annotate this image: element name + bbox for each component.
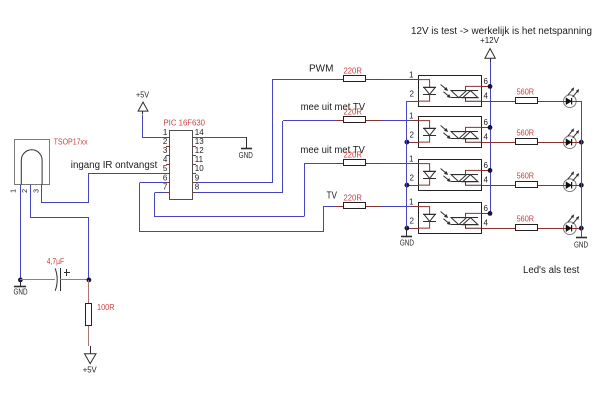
wire +5V to PIC pin1 bbox=[143, 115, 167, 138]
LED D4 emission arrows bbox=[568, 215, 579, 225]
svg-text:PIC 16F630: PIC 16F630 bbox=[164, 118, 206, 127]
optocoupler OK2 body bbox=[419, 117, 482, 148]
wire capacitor to node B bbox=[60, 279, 89, 281]
OK3 pin 4 lead bbox=[482, 185, 497, 187]
wire mee1 net to R2 bbox=[283, 120, 336, 122]
svg-text:3: 3 bbox=[34, 189, 41, 193]
U1 pin 3 lead bbox=[166, 155, 170, 157]
wire U2 pin2 down-right-down to Vs node bbox=[31, 185, 89, 280]
wire left rail (opto pin2 bus) bbox=[406, 101, 408, 228]
svg-text:6: 6 bbox=[484, 161, 489, 170]
lead R5 to +5V arrow bbox=[88, 326, 90, 346]
optocoupler OK1 body bbox=[419, 76, 482, 107]
wire OK2 pin4 to R7 bbox=[497, 142, 515, 144]
label 560R (R8) bbox=[517, 171, 535, 180]
label 220R (R4) bbox=[344, 194, 363, 203]
junction left rail at OK4 pin2 bbox=[405, 226, 410, 231]
U1 pin 1 number bbox=[163, 128, 168, 137]
label TV bbox=[327, 190, 338, 201]
U1 pin 7 number bbox=[163, 182, 168, 191]
OK3 pin 6 number bbox=[484, 161, 489, 170]
svg-text:2: 2 bbox=[22, 189, 29, 193]
OK3 pin 1 number bbox=[409, 155, 414, 164]
U1 pin 12 number bbox=[195, 146, 204, 155]
svg-text:2: 2 bbox=[410, 90, 415, 99]
junction +12V rail at OK4 pin6 bbox=[488, 211, 493, 216]
U1 pin 14 lead bbox=[193, 137, 196, 139]
OK1 pin 6 lead bbox=[482, 86, 490, 88]
svg-text:6: 6 bbox=[163, 173, 168, 182]
OK1 pin 2 number bbox=[410, 90, 415, 99]
ground GND (below LED column) bbox=[574, 238, 588, 250]
svg-text:3: 3 bbox=[163, 146, 168, 155]
OK2 pin 6 number bbox=[484, 118, 489, 127]
svg-text:560R: 560R bbox=[517, 87, 535, 96]
wire LED1 to right rail bbox=[576, 101, 581, 103]
OK4 internal LED bbox=[419, 207, 436, 229]
OK3 pin 2 lead bbox=[412, 185, 419, 187]
U2 pin 2 number bbox=[22, 189, 29, 193]
LED D2 bbox=[563, 136, 576, 149]
OK2 pin 4 number bbox=[484, 132, 489, 141]
U1 pin 6 number bbox=[163, 173, 168, 182]
ground GND (below opto column) bbox=[400, 228, 414, 248]
label Led's als test bbox=[523, 265, 580, 276]
wire LED2 to right rail bbox=[576, 142, 581, 144]
junction +12V rail at OK3 pin6 bbox=[488, 168, 493, 173]
wire OK1 pin4 to R6 bbox=[497, 101, 515, 103]
OK1 pin 1 number bbox=[409, 71, 414, 80]
svg-text:220R: 220R bbox=[344, 108, 363, 117]
resistor R5 100R body bbox=[86, 304, 92, 326]
junction +12V rail at OK2 pin6 bbox=[488, 125, 493, 130]
label 220R (R1) bbox=[344, 67, 363, 76]
U1 pin 14 number bbox=[195, 128, 204, 137]
OK2 light arrows bbox=[441, 126, 451, 139]
svg-text:4,7µF: 4,7µF bbox=[47, 257, 65, 266]
svg-text:1: 1 bbox=[409, 155, 414, 164]
label 12V is test note bbox=[411, 26, 592, 37]
svg-text:GND: GND bbox=[239, 151, 253, 160]
label 560R (R9) bbox=[517, 214, 535, 223]
OK2 pin 2 lead bbox=[412, 142, 419, 144]
label mee uit met TV (1) bbox=[301, 102, 366, 113]
power +5V (top of PIC, arrow up) bbox=[136, 90, 150, 114]
LED D2 emission arrows bbox=[568, 129, 579, 139]
OK3 pin 6 lead bbox=[482, 170, 490, 172]
wire GND node to capacitor bbox=[20, 279, 55, 281]
LED D1 emission arrows bbox=[568, 88, 579, 98]
svg-text:220R: 220R bbox=[344, 194, 363, 203]
wire U2 pin3 to PIC pin5 (ingang IR ontvangst) bbox=[42, 174, 167, 203]
OK4 pin 2 lead bbox=[412, 228, 419, 230]
U2 pin 3 number bbox=[34, 189, 41, 193]
resistor R1 220R with leads bbox=[336, 76, 419, 82]
U1 pin 11 lead bbox=[193, 164, 196, 166]
OK4 pin 4 lead bbox=[482, 228, 497, 230]
U1 pin 2 number bbox=[163, 137, 168, 146]
LED D3 bbox=[563, 179, 576, 192]
OK1 pin 2 lead bbox=[412, 101, 419, 103]
node A junction (GND side) bbox=[18, 278, 23, 283]
U1 pin 3 number bbox=[163, 146, 168, 155]
svg-text:560R: 560R bbox=[517, 128, 535, 137]
OK1 pin 1 lead bbox=[412, 79, 419, 81]
svg-text:+5V: +5V bbox=[83, 365, 98, 374]
wire U1 pin14 to GND bbox=[196, 137, 246, 139]
OK4 pin 2 number bbox=[410, 217, 415, 226]
ground GND (lower left) bbox=[14, 280, 28, 296]
junction left rail at OK3 pin2 bbox=[405, 183, 410, 188]
wire mee2 net to R3 bbox=[304, 163, 336, 165]
OK4 pin 1 lead bbox=[412, 206, 419, 208]
svg-text:12V is test -> werkelijk is he: 12V is test -> werkelijk is het netspann… bbox=[411, 26, 592, 37]
IR receiver U2 dome bbox=[21, 150, 42, 185]
OK1 light arrows bbox=[441, 85, 451, 98]
U1 pin 7 lead bbox=[166, 192, 170, 194]
svg-text:5: 5 bbox=[163, 164, 168, 173]
OK3 internal triac bbox=[451, 170, 482, 185]
wire +12V rail bbox=[490, 62, 492, 213]
optocoupler OK3 body bbox=[419, 160, 482, 191]
wire mee1 riser bbox=[282, 121, 284, 192]
OK3 light arrows bbox=[441, 169, 451, 182]
U2 pin 1 number bbox=[11, 189, 18, 193]
U1 pin 13 number bbox=[195, 137, 204, 146]
ground GND (at PIC pin14) bbox=[239, 137, 253, 160]
node B junction (Vs/100R) bbox=[87, 278, 92, 283]
svg-text:1: 1 bbox=[11, 189, 18, 193]
svg-text:220R: 220R bbox=[344, 67, 363, 76]
LED D3 emission arrows bbox=[568, 172, 579, 182]
svg-text:9: 9 bbox=[195, 173, 200, 182]
wire R6 to LED1 bbox=[538, 101, 563, 103]
wire R8 to LED3 bbox=[538, 185, 563, 187]
svg-text:PWM: PWM bbox=[309, 64, 333, 75]
label 560R (R7) bbox=[517, 128, 535, 137]
OK3 pin 2 number bbox=[410, 174, 415, 183]
resistor R8 560R body bbox=[516, 182, 538, 188]
U1 pin 10 number bbox=[195, 164, 204, 173]
LED D4 bbox=[563, 222, 576, 235]
optocoupler OK4 body bbox=[419, 203, 482, 234]
U1 pin 5 number bbox=[163, 164, 168, 173]
wire LED4 to right rail bbox=[576, 228, 581, 230]
PIC U1 16F630 body bbox=[170, 131, 193, 200]
wire U1 pin9 to PWM riser bbox=[196, 182, 272, 184]
OK1 pin 6 number bbox=[484, 77, 489, 86]
svg-text:4: 4 bbox=[484, 132, 489, 141]
svg-text:4: 4 bbox=[484, 218, 489, 227]
svg-text:14: 14 bbox=[195, 128, 204, 137]
svg-text:TSOP17xx: TSOP17xx bbox=[54, 138, 88, 147]
label PIC 16F630 bbox=[164, 118, 206, 127]
svg-text:4: 4 bbox=[163, 155, 168, 164]
svg-text:6: 6 bbox=[484, 77, 489, 86]
wire U2 pin1 to GND node bbox=[20, 185, 22, 280]
wire PWM riser bbox=[272, 80, 274, 183]
wire U1 pin8 to mee1 riser bbox=[196, 192, 283, 194]
U1 pin 10 lead bbox=[193, 173, 196, 175]
U1 pin 13 lead bbox=[193, 146, 196, 148]
svg-text:220R: 220R bbox=[344, 151, 363, 160]
OK4 internal triac bbox=[451, 213, 482, 228]
OK3 pin 4 number bbox=[484, 175, 489, 184]
label 4,7uF bbox=[47, 257, 65, 266]
LED D1 bbox=[563, 95, 576, 108]
U1 pin 1 lead bbox=[166, 137, 170, 139]
OK4 pin 4 number bbox=[484, 218, 489, 227]
label TSOP17xx bbox=[54, 138, 88, 147]
resistor R7 560R body bbox=[516, 139, 538, 145]
svg-text:+5V: +5V bbox=[136, 90, 150, 99]
U1 pin 4 number bbox=[163, 155, 168, 164]
OK2 pin 1 number bbox=[409, 112, 414, 121]
power +5V (bottom, arrow down) bbox=[83, 346, 98, 374]
junction right rail at LED4 bbox=[579, 226, 584, 231]
svg-text:6: 6 bbox=[484, 118, 489, 127]
wire PWM net to R1 bbox=[272, 79, 336, 81]
power +12V (arrow up) bbox=[480, 36, 500, 62]
U1 pin 2 lead bbox=[166, 146, 170, 148]
OK1 pin 4 number bbox=[484, 91, 489, 100]
svg-text:2: 2 bbox=[410, 174, 415, 183]
svg-text:8: 8 bbox=[195, 182, 200, 191]
U1 pin 6 lead bbox=[166, 182, 170, 184]
svg-text:13: 13 bbox=[195, 137, 204, 146]
wire R7 to LED2 bbox=[538, 142, 563, 144]
junction left rail at OK2 pin2 bbox=[405, 140, 410, 145]
wire U1 pin6 left-down-right bbox=[140, 183, 324, 232]
label 220R (R2) bbox=[344, 108, 363, 117]
U1 pin 9 lead bbox=[193, 182, 196, 184]
svg-text:GND: GND bbox=[400, 239, 414, 248]
label PWM bbox=[309, 64, 333, 75]
svg-text:1: 1 bbox=[409, 112, 414, 121]
label 100R bbox=[97, 303, 115, 312]
wire U1 pin7 left-down-right bbox=[155, 193, 305, 217]
label 220R (R3) bbox=[344, 151, 363, 160]
svg-text:1: 1 bbox=[163, 128, 168, 137]
svg-text:12: 12 bbox=[195, 146, 204, 155]
label 560R (R6) bbox=[517, 87, 535, 96]
OK4 pin 1 number bbox=[409, 198, 414, 207]
OK1 internal triac bbox=[451, 86, 482, 101]
wire mee2 riser bbox=[304, 164, 306, 216]
OK3 internal LED bbox=[419, 164, 436, 186]
U1 pin 5 lead bbox=[166, 173, 170, 175]
svg-text:Led's als test: Led's als test bbox=[523, 265, 580, 276]
resistor R6 560R body bbox=[516, 98, 538, 104]
wire TV riser bbox=[323, 207, 325, 232]
svg-text:6: 6 bbox=[484, 204, 489, 213]
wire OK3 pin2 stub bbox=[407, 185, 412, 187]
resistor R2 220R with leads bbox=[336, 117, 419, 123]
svg-text:2: 2 bbox=[163, 137, 168, 146]
OK2 internal LED bbox=[419, 121, 436, 143]
svg-text:7: 7 bbox=[163, 182, 168, 191]
junction right rail at LED2 bbox=[579, 140, 584, 145]
OK4 pin 6 lead bbox=[482, 213, 490, 215]
wire OK3 pin4 to R8 bbox=[497, 185, 515, 187]
svg-text:1: 1 bbox=[409, 71, 414, 80]
svg-text:2: 2 bbox=[410, 131, 415, 140]
U1 pin 8 lead bbox=[193, 192, 196, 194]
U1 pin 11 number bbox=[195, 155, 204, 164]
OK4 pin 6 number bbox=[484, 204, 489, 213]
resistor R9 560R body bbox=[516, 225, 538, 231]
capacitor C1 4,7uF bbox=[55, 268, 70, 291]
junction right rail at LED3 bbox=[579, 183, 584, 188]
wire OK2 pin2 stub bbox=[407, 142, 412, 144]
wire TV net to R4 bbox=[323, 206, 336, 208]
OK2 pin 1 lead bbox=[412, 120, 419, 122]
svg-text:4: 4 bbox=[484, 91, 489, 100]
OK2 internal triac bbox=[451, 127, 482, 142]
svg-text:11: 11 bbox=[195, 155, 204, 164]
OK2 pin 6 lead bbox=[482, 127, 490, 129]
label mee uit met TV (2) bbox=[300, 145, 365, 156]
OK1 pin 4 lead bbox=[482, 101, 497, 103]
wire right rail (LED cathode bus) bbox=[581, 101, 583, 237]
svg-text:560R: 560R bbox=[517, 171, 535, 180]
resistor R4 220R with leads bbox=[336, 203, 419, 209]
U1 pin 8 number bbox=[195, 182, 200, 191]
wire R9 to LED4 bbox=[538, 228, 563, 230]
wire OK4 pin2 stub bbox=[407, 228, 412, 230]
wire LED3 to right rail bbox=[576, 185, 581, 187]
OK1 internal LED bbox=[419, 80, 436, 102]
OK2 pin 4 lead bbox=[482, 142, 497, 144]
lead node B to resistor R5 bbox=[88, 280, 90, 304]
U1 pin 4 lead bbox=[166, 164, 170, 166]
svg-text:10: 10 bbox=[195, 164, 204, 173]
svg-text:2: 2 bbox=[410, 217, 415, 226]
wire OK4 pin4 to R9 bbox=[497, 228, 515, 230]
svg-text:TV: TV bbox=[327, 190, 338, 201]
IR receiver U2 TSOP17xx body bbox=[15, 140, 50, 185]
svg-text:1: 1 bbox=[409, 198, 414, 207]
resistor R3 220R with leads bbox=[336, 160, 419, 166]
svg-text:ingang IR ontvangst: ingang IR ontvangst bbox=[71, 160, 158, 171]
junction +12V rail at OK1 pin6 bbox=[488, 84, 493, 89]
svg-text:+12V: +12V bbox=[480, 36, 500, 45]
svg-text:100R: 100R bbox=[97, 303, 115, 312]
svg-text:GND: GND bbox=[14, 287, 28, 296]
OK4 light arrows bbox=[441, 212, 451, 225]
svg-text:4: 4 bbox=[484, 175, 489, 184]
U1 pin 9 number bbox=[195, 173, 200, 182]
U1 pin 12 lead bbox=[193, 155, 196, 157]
OK3 pin 1 lead bbox=[412, 163, 419, 165]
wire OK1 pin2 to left rail bbox=[407, 101, 412, 103]
OK2 pin 2 number bbox=[410, 131, 415, 140]
label ingang IR ontvangst bbox=[71, 160, 158, 171]
svg-text:560R: 560R bbox=[517, 214, 535, 223]
svg-text:GND: GND bbox=[574, 240, 588, 249]
